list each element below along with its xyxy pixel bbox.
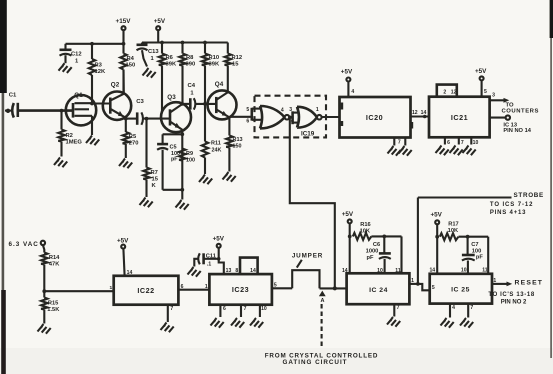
svg-text:4: 4: [281, 107, 284, 113]
svg-text:270: 270: [129, 141, 139, 147]
svg-text:+5V: +5V: [154, 18, 166, 25]
svg-text:COUNTERS: COUNTERS: [502, 109, 539, 115]
svg-text:R2: R2: [66, 133, 73, 139]
svg-text:47K: 47K: [49, 262, 60, 268]
svg-text:1: 1: [316, 107, 319, 113]
svg-text:C6: C6: [373, 242, 380, 248]
svg-text:24K: 24K: [212, 148, 222, 154]
svg-text:R3: R3: [95, 63, 103, 69]
svg-text:+5V: +5V: [213, 235, 225, 242]
svg-text:12K: 12K: [95, 69, 106, 75]
svg-text:390: 390: [186, 62, 196, 68]
svg-text:7: 7: [170, 306, 173, 312]
svg-text:+5V: +5V: [475, 68, 487, 75]
svg-text:JUMPER: JUMPER: [292, 253, 323, 260]
svg-text:GATING CIRCUIT: GATING CIRCUIT: [282, 359, 347, 366]
svg-text:+5V: +5V: [117, 238, 129, 245]
svg-text:TO IC'S 13-18: TO IC'S 13-18: [488, 292, 534, 298]
svg-text:100: 100: [472, 249, 482, 255]
svg-text:R12: R12: [232, 55, 243, 61]
svg-text:C4: C4: [188, 83, 196, 89]
svg-text:pF: pF: [171, 157, 178, 163]
svg-text:IC20: IC20: [366, 113, 383, 122]
svg-text:14: 14: [250, 268, 256, 274]
svg-text:R5: R5: [129, 134, 137, 140]
svg-text:STROBE: STROBE: [514, 192, 544, 199]
svg-text:6.3 VAC: 6.3 VAC: [9, 241, 39, 248]
svg-text:TO: TO: [506, 102, 514, 108]
svg-text:1: 1: [109, 285, 112, 291]
svg-text:+5V: +5V: [341, 68, 353, 75]
svg-text:TO ICS 7-12: TO ICS 7-12: [490, 202, 533, 208]
svg-text:11: 11: [482, 268, 488, 274]
svg-text:5: 5: [274, 282, 277, 288]
svg-text:R13: R13: [233, 137, 243, 143]
svg-text:7: 7: [397, 305, 400, 311]
svg-text:39K: 39K: [166, 62, 177, 68]
svg-text:A: A: [321, 298, 325, 304]
svg-text:C13: C13: [148, 49, 159, 55]
svg-text:IC19: IC19: [301, 131, 315, 138]
svg-text:1: 1: [205, 284, 208, 290]
svg-text:1MEG: 1MEG: [66, 140, 83, 146]
svg-text:7: 7: [461, 140, 464, 146]
svg-text:R11: R11: [211, 141, 221, 147]
svg-text:Q2: Q2: [111, 82, 120, 89]
svg-text:IC22: IC22: [137, 286, 154, 295]
svg-text:C3: C3: [136, 99, 144, 105]
svg-text:R10: R10: [209, 55, 220, 61]
svg-text:14: 14: [421, 110, 427, 116]
svg-text:IC 25: IC 25: [451, 287, 470, 294]
svg-text:4: 4: [452, 305, 455, 311]
svg-text:39K: 39K: [209, 62, 220, 68]
svg-text:R4: R4: [127, 56, 135, 62]
svg-text:6: 6: [223, 306, 226, 312]
svg-text:RESET: RESET: [515, 280, 544, 287]
svg-text:IC 24: IC 24: [369, 287, 388, 294]
svg-text:10: 10: [261, 306, 267, 312]
svg-text:Q4: Q4: [215, 81, 224, 88]
svg-text:14: 14: [342, 268, 348, 274]
svg-text:PIN NO 14: PIN NO 14: [503, 128, 531, 134]
svg-text:1.5K: 1.5K: [47, 307, 60, 313]
svg-text:5: 5: [246, 107, 249, 113]
svg-text:R17: R17: [448, 222, 458, 228]
svg-text:pF: pF: [367, 255, 374, 261]
svg-text:15: 15: [232, 62, 239, 68]
svg-text:C7: C7: [471, 242, 478, 248]
svg-text:R6: R6: [166, 55, 174, 61]
svg-text:12: 12: [412, 110, 418, 116]
svg-text:13: 13: [226, 268, 232, 274]
svg-text:R8: R8: [186, 55, 194, 61]
svg-text:6: 6: [447, 140, 450, 146]
svg-text:10K: 10K: [448, 228, 459, 234]
svg-text:10: 10: [377, 268, 383, 274]
svg-text:R9: R9: [186, 151, 193, 157]
svg-text:10K: 10K: [360, 229, 371, 235]
svg-text:10: 10: [461, 268, 467, 274]
svg-text:150: 150: [233, 144, 242, 150]
svg-text:C12: C12: [71, 52, 82, 58]
svg-text:7: 7: [244, 306, 247, 312]
svg-text:8: 8: [235, 268, 238, 274]
svg-text:6: 6: [181, 284, 184, 290]
svg-text:C11: C11: [206, 253, 216, 259]
svg-text:R15: R15: [48, 301, 58, 307]
svg-text:R16: R16: [360, 222, 370, 228]
svg-text:C1: C1: [9, 93, 17, 99]
svg-text:1000: 1000: [366, 248, 379, 254]
svg-text:11: 11: [395, 268, 401, 274]
svg-text:3: 3: [289, 107, 292, 113]
svg-text:2: 2: [443, 90, 446, 96]
svg-text:.1: .1: [207, 261, 212, 267]
svg-text:PIN NO 2: PIN NO 2: [501, 300, 527, 306]
svg-text:100: 100: [186, 158, 195, 164]
svg-text:15: 15: [152, 177, 159, 183]
svg-text:IC21: IC21: [451, 113, 468, 122]
svg-text:R7: R7: [151, 170, 158, 176]
svg-text:+5V: +5V: [431, 211, 443, 218]
svg-text:12: 12: [451, 90, 457, 96]
svg-text:C5: C5: [170, 145, 177, 151]
svg-text:+15V: +15V: [116, 18, 132, 25]
svg-text:pF: pF: [476, 255, 483, 261]
svg-text:+5V: +5V: [342, 211, 354, 218]
svg-text:1: 1: [411, 278, 414, 284]
svg-text:6: 6: [246, 118, 249, 124]
svg-text:7: 7: [398, 140, 401, 146]
svg-text:IC23: IC23: [232, 285, 249, 294]
svg-text:4: 4: [351, 89, 354, 95]
svg-text:7: 7: [470, 305, 473, 311]
svg-text:14: 14: [429, 268, 435, 274]
svg-text:14: 14: [127, 270, 133, 276]
svg-text:2: 2: [291, 118, 294, 124]
svg-text:10: 10: [473, 140, 479, 146]
svg-text:PINS 4+13: PINS 4+13: [490, 210, 526, 216]
svg-text:Q3: Q3: [167, 94, 176, 101]
svg-text:1: 1: [493, 278, 496, 284]
svg-text:5: 5: [432, 285, 435, 291]
svg-text:R14: R14: [49, 255, 60, 261]
svg-text:150: 150: [126, 63, 136, 69]
svg-text:5: 5: [484, 89, 487, 95]
svg-text:3: 3: [492, 93, 495, 99]
